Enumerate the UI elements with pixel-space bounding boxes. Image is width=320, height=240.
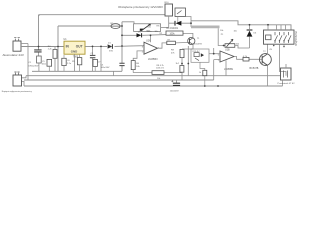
component row box4 — [77, 55, 81, 72]
wire U2B output to T2 base — [234, 57, 262, 60]
wire vertical x=122 — [121, 22, 123, 72]
svg-text:BC547B: BC547B — [250, 67, 259, 70]
label 6V coil — [270, 49, 273, 51]
diode D6 — [247, 25, 253, 48]
label C4 — [170, 90, 180, 92]
label U1 — [64, 38, 68, 41]
subcircuit box — [191, 49, 209, 62]
label P1 10k — [236, 44, 240, 46]
capacitor C4 electrolytic — [171, 80, 180, 86]
resistor R4 vertical — [53, 47, 57, 72]
label R14 — [176, 63, 180, 65]
label T2 — [263, 51, 266, 53]
label R13 — [199, 72, 202, 74]
wire R7 to T1 base — [175, 41, 189, 44]
transistor T1 — [188, 37, 195, 44]
wire G2 left corner — [22, 76, 27, 78]
wire P1 right to D6 branch — [235, 46, 250, 49]
svg-text:100u/10V: 100u/10V — [101, 67, 111, 69]
capacitor C2 — [90, 46, 96, 71]
label R10 — [165, 2, 170, 4]
trimmer box P2 — [134, 24, 161, 32]
switch box S1 — [175, 8, 186, 23]
resistor R11 — [243, 57, 249, 61]
component row box3 — [62, 55, 66, 71]
wire T1 collector — [183, 33, 193, 38]
wire subcircuit right vertical — [213, 48, 215, 54]
svg-text:100k 1%: 100k 1% — [156, 68, 164, 70]
svg-text:4700u/35V: 4700u/35V — [28, 66, 39, 68]
rail G4 y=86 — [24, 85, 283, 87]
potentiometer P1 — [225, 39, 235, 47]
wire from x=122 to trimmer box — [122, 22, 134, 24]
wire T2 emitter down — [267, 66, 269, 86]
title text: Obciazenie przetwornica 12V/230V — [118, 5, 163, 9]
wire top right y=20.8 — [191, 21, 291, 30]
op-amp U2B — [218, 51, 234, 62]
wire U2B ground pin — [225, 60, 227, 75]
fuse F1 oval — [111, 24, 120, 29]
resistor R9 — [180, 49, 184, 79]
label LM358N lower — [224, 68, 233, 71]
regulator U1 7805 (yellow) — [64, 41, 85, 54]
svg-text:R13 4k7: R13 4k7 — [193, 51, 200, 53]
resistor R8 top long box — [160, 31, 184, 36]
label box3 — [67, 60, 72, 65]
svg-text:100u/25V: 100u/25V — [170, 90, 180, 92]
relay coil RL1 box lower — [281, 64, 292, 86]
wire U2A output — [158, 43, 167, 48]
label D5 — [138, 31, 159, 33]
resistor R13 vertical on G2 — [203, 70, 207, 86]
label Przekaznik 4T 6V — [278, 82, 296, 85]
label near x=220 — [220, 30, 224, 36]
op-amp U2A — [142, 42, 161, 54]
label 4.7k — [243, 56, 248, 58]
svg-text:LM358N: LM358N — [224, 68, 233, 71]
svg-text:D4 1N4001: D4 1N4001 — [167, 28, 179, 30]
svg-text:Obciążenie przetwornicy 12V/23: Obciążenie przetwornicy 12V/230V — [118, 5, 163, 9]
component row box2 — [47, 59, 52, 71]
wire subcircuit left vertical — [187, 46, 189, 76]
wire vertical x=58 — [57, 26, 59, 71]
transistor T2 — [260, 54, 272, 66]
label D6 — [234, 31, 258, 35]
wire G4 left corner — [22, 81, 25, 86]
wire diode branch y=23 — [169, 22, 191, 24]
svg-text:OUT: OUT — [76, 45, 83, 49]
svg-text:100n: 100n — [42, 63, 46, 65]
ground rail G1 y=71.3 — [32, 70, 122, 72]
relay contact block RL1 — [264, 30, 295, 44]
svg-text:PRZEKAŹNIK: PRZEKAŹNIK — [294, 31, 297, 46]
svg-text:Przekaźnik 4T 6V: Przekaźnik 4T 6V — [278, 82, 296, 85]
diode D5 — [137, 33, 142, 37]
label PRZEKAZNIK vertical — [294, 31, 297, 46]
wire relay lower connections — [280, 44, 287, 75]
wire U2A power pin — [150, 35, 152, 42]
rail G2 y=75.7 — [26, 75, 281, 77]
label C1 value — [28, 62, 39, 68]
capacitor C1 body box — [37, 56, 42, 71]
wire x=218 down to P1 — [218, 28, 225, 45]
resistor R12 horizontal — [152, 71, 164, 75]
resistor R6 — [131, 61, 135, 73]
label C5 — [42, 61, 46, 66]
svg-text:Akumulator 24V: Akumulator 24V — [3, 53, 24, 57]
label 1N4001 — [167, 28, 179, 30]
wire U1 GND pin down — [74, 54, 76, 71]
svg-text:Napięcie wyłączenia przetworni: Napięcie wyłączenia przetwornicy — [2, 90, 32, 93]
capacitor C3 plates — [119, 63, 124, 65]
label R7 — [168, 39, 172, 41]
label R9 — [171, 50, 175, 55]
zener diode D1 — [108, 44, 113, 49]
wire vertical x=39 battery plus to top bus — [38, 15, 40, 50]
label R6 — [136, 63, 140, 68]
wire main input y=46.5 to regulator IN — [21, 46, 64, 48]
wire battery minus down x=28 — [27, 44, 29, 81]
wire U2B -input — [214, 60, 220, 80]
label box4 — [72, 61, 76, 63]
label F1 — [111, 23, 114, 25]
label U2A — [146, 39, 151, 42]
component row box5 — [93, 59, 97, 71]
resistor R10 top box — [165, 4, 173, 28]
resistor R14 vertical — [180, 66, 184, 73]
wire battery plus terminal — [21, 43, 28, 45]
wire U2A pin2 feedback — [133, 51, 144, 61]
battery label Akumulator 24V — [3, 53, 24, 57]
junction dots below relay — [273, 45, 285, 48]
label D1 — [108, 42, 114, 52]
label near rail end — [101, 64, 111, 69]
wire T2 collector up — [266, 44, 268, 54]
label trimmer values — [146, 26, 160, 33]
wire T1 emitter to R9 — [182, 44, 193, 49]
label U2B — [225, 48, 230, 51]
svg-text:GND: GND — [71, 50, 77, 54]
wire relay contact feeds — [268, 25, 286, 30]
wire y=35.3 — [122, 34, 166, 37]
wire from S1 to step — [186, 17, 191, 27]
thick gray net segment — [191, 25, 220, 28]
label R4 — [48, 46, 53, 51]
label box5 — [98, 61, 102, 63]
wire feedback y=72.6 — [133, 72, 182, 74]
wire U1 OUT y=46.4 — [85, 45, 144, 48]
wire vertical x=101 — [100, 46, 102, 71]
wire subcircuit to R13b — [200, 62, 205, 70]
wire top bus y=14.7 — [39, 15, 165, 16]
label 7805 — [73, 55, 79, 58]
battery B1 Akumulator 24V — [13, 38, 21, 52]
resistor R7 horizontal — [167, 41, 176, 44]
wire trimmer out to diode D4 branch — [161, 27, 169, 29]
wire U2B +input — [209, 53, 220, 55]
capacitor C1 plates — [34, 47, 41, 57]
svg-text:BC547B: BC547B — [194, 44, 203, 46]
svg-text:100k: 100k — [170, 34, 176, 36]
wire second bus y=26.6 — [58, 25, 122, 27]
junction dots — [38, 22, 269, 87]
wire G1 to G2 link — [112, 71, 114, 75]
diode D4 1N4001 — [175, 21, 181, 26]
rail G3 y=80 — [24, 79, 214, 81]
label R12 — [156, 65, 165, 80]
label BC547B — [250, 67, 259, 70]
svg-text:U2B: U2B — [225, 48, 230, 51]
svg-text:LM358N: LM358N — [148, 58, 158, 61]
label T1 — [194, 38, 203, 45]
label napiecie — [2, 90, 32, 93]
label LM358 — [148, 58, 158, 61]
terminal block X1 — [13, 72, 22, 86]
